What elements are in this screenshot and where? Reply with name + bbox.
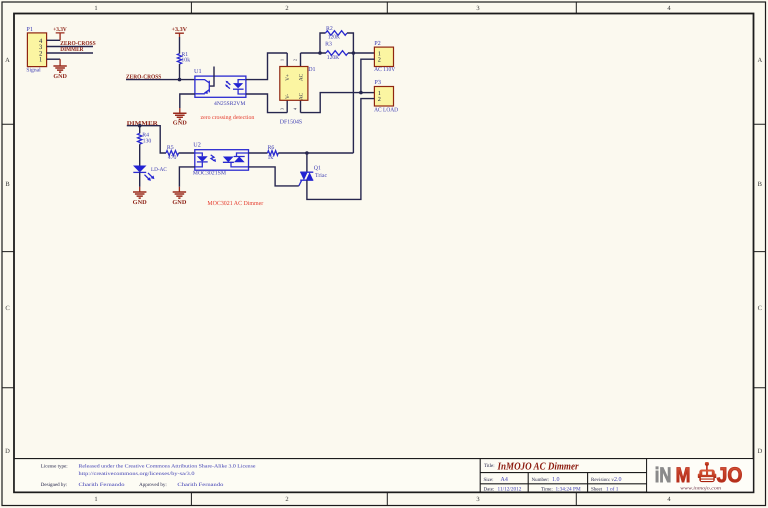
svg-text:A: A [5, 57, 10, 64]
svg-text:A: A [757, 57, 762, 64]
svg-text:GND: GND [173, 120, 188, 126]
wire P2 pin2 down [361, 59, 375, 92]
svg-text:ZERO-CROSS: ZERO-CROSS [60, 41, 96, 47]
svg-text:470: 470 [168, 155, 177, 161]
svg-text:M: M [676, 464, 691, 487]
svg-text:JO: JO [717, 464, 743, 487]
wire D1 pin2 to R2/R3 [301, 52, 321, 54]
svg-text:AC LOAD: AC LOAD [374, 107, 399, 113]
resistor R4 [138, 133, 152, 145]
svg-text:Sheet: Sheet [591, 486, 603, 492]
resistor R2 [326, 26, 347, 40]
svg-text:130: 130 [143, 138, 152, 144]
svg-text:Signal: Signal [26, 67, 41, 73]
wire P1 pin2 DIMMER [47, 52, 93, 54]
svg-text:R5: R5 [167, 145, 174, 151]
svg-text:V+: V+ [285, 74, 291, 81]
svg-text:AC 110V: AC 110V [374, 67, 396, 73]
svg-text:10k: 10k [181, 57, 190, 64]
connector P2 [374, 40, 396, 73]
svg-text:11/12/2012: 11/12/2012 [498, 486, 522, 492]
svg-text:MOC3021SM: MOC3021SM [193, 171, 226, 177]
wire AC hot vertical [352, 53, 354, 153]
svg-text:1k: 1k [268, 154, 274, 161]
title text [484, 461, 579, 472]
svg-text:Number:: Number: [532, 477, 550, 483]
optotriac U2 MOC3021SM [193, 142, 249, 177]
resistor R1 [177, 52, 190, 64]
wire R1 to ZERO-CROSS node [179, 64, 181, 80]
svg-text:1.0: 1.0 [552, 477, 560, 483]
svg-text:2: 2 [293, 59, 298, 61]
power +3.3V (P1) [53, 27, 67, 41]
svg-text:U1: U1 [194, 68, 202, 75]
svg-text:4N25SR2VM: 4N25SR2VM [214, 101, 245, 107]
svg-text:U2: U2 [193, 142, 201, 149]
svg-text:R6: R6 [268, 145, 275, 151]
wire R4 to LED [139, 144, 141, 165]
svg-text:zero crossing detection: zero crossing detection [201, 114, 255, 121]
svg-text:1: 1 [94, 496, 97, 503]
wire R5 to U2 [179, 152, 195, 154]
svg-text:Size:: Size: [484, 477, 494, 483]
svg-text:1: 1 [279, 59, 284, 61]
ground (U1) [173, 108, 188, 126]
license block [14, 459, 754, 493]
wire U2 cathode to GND [179, 167, 194, 187]
svg-text:GND: GND [172, 200, 187, 206]
svg-text:3: 3 [476, 496, 479, 503]
svg-text:1:34:24 PM: 1:34:24 PM [556, 486, 581, 492]
svg-text:Designed by:: Designed by: [41, 482, 68, 488]
svg-text:V-: V- [285, 94, 291, 99]
svg-text:Charith Fernando: Charith Fernando [79, 482, 126, 488]
wire triac MT1 to P3 pin2 [307, 99, 375, 200]
svg-text:Q1: Q1 [314, 165, 321, 171]
resistor R3 [320, 42, 353, 62]
svg-text:2: 2 [378, 96, 381, 103]
svg-text:Title:: Title: [484, 463, 495, 469]
junction P3 pin1 node [359, 91, 363, 95]
bridge rectifier D1 DF1504S [279, 53, 315, 126]
svg-text:D: D [757, 448, 762, 455]
svg-text:Revision: v.: Revision: v. [591, 477, 615, 483]
wire P1 pin3 ZERO-CROSS [47, 46, 93, 48]
wire ZERO-CROSS to U1 [126, 79, 195, 81]
svg-text:GND: GND [53, 74, 67, 80]
svg-text:+3.3V: +3.3V [172, 27, 188, 33]
svg-text:R3: R3 [325, 42, 332, 48]
svg-text:B: B [758, 181, 763, 188]
svg-text:D: D [5, 448, 10, 455]
svg-text:R2: R2 [326, 26, 333, 32]
ground (U2) [172, 187, 187, 206]
svg-text:B: B [5, 181, 10, 188]
connector P3 [374, 79, 399, 113]
svg-text:AC: AC [299, 73, 305, 81]
svg-text:DIMMER: DIMMER [60, 47, 84, 53]
svg-text:1: 1 [94, 5, 97, 12]
svg-text:120K: 120K [327, 55, 340, 61]
title block grid [480, 459, 646, 493]
ground (P1) [53, 59, 67, 80]
wire R6 to AC hot [278, 152, 353, 154]
wire junction to triac [306, 153, 308, 172]
svg-text:DF1504S: DF1504S [280, 120, 302, 126]
svg-text:+3.3V: +3.3V [53, 27, 67, 33]
wire U1 emitter to GND [180, 94, 195, 108]
power +3.3V (R1) [172, 27, 188, 37]
svg-text:1: 1 [39, 57, 42, 64]
wire DIMMER to R4 [139, 126, 141, 134]
wire to P3 pin1 [361, 92, 375, 94]
svg-text:License type:: License type: [41, 464, 68, 470]
wire R2 branch up [320, 33, 353, 53]
wire U1 LED anode to D1 pin1 [246, 53, 287, 80]
junction R4 tap [138, 124, 142, 128]
svg-text:A4: A4 [501, 477, 508, 483]
resistor R6 [249, 145, 279, 161]
size/number/revision row [484, 477, 622, 483]
svg-text:LD-AC: LD-AC [151, 167, 167, 173]
svg-text:2: 2 [285, 5, 288, 12]
junction triac top [305, 151, 309, 155]
svg-text:2: 2 [285, 496, 288, 503]
svg-text:http://creativecommons.org/lic: http://creativecommons.org/licenses/by-s… [79, 471, 196, 477]
svg-text:3: 3 [476, 5, 479, 12]
wire +3.3V to R1 [179, 37, 181, 54]
svg-text:Time:: Time: [541, 486, 553, 492]
svg-text:iN: iN [655, 464, 672, 487]
wire LED to GND [139, 172, 141, 186]
date/time/sheet row [484, 486, 619, 492]
svg-text:Date:: Date: [484, 486, 495, 492]
svg-text:2.0: 2.0 [614, 477, 622, 483]
resistor R5 [166, 145, 179, 161]
svg-text:www.inmojo.com: www.inmojo.com [680, 485, 721, 491]
optocoupler U1 4N25SR2VM [194, 67, 246, 108]
wire P1 pin4 to +3.3V [47, 39, 61, 41]
svg-text:Triac: Triac [315, 173, 327, 179]
svg-text:P1: P1 [26, 26, 33, 33]
junction R2R3 right [352, 51, 356, 55]
wire D1 pin4 to AC node [301, 93, 361, 113]
connector P1 [26, 26, 46, 73]
wire U2 pin4 to gate [249, 167, 299, 186]
svg-text:120K: 120K [328, 35, 341, 41]
svg-text:Charith Fernando: Charith Fernando [177, 482, 224, 488]
LED LD-AC [133, 166, 167, 181]
svg-text:Released under the Creative Co: Released under the Creative Commons Attr… [79, 464, 257, 470]
wire DIMMER rail [127, 126, 166, 153]
inmojo logo [647, 459, 753, 491]
svg-text:AC: AC [299, 92, 305, 100]
svg-text:1 of 1: 1 of 1 [606, 486, 619, 492]
svg-text:C: C [5, 305, 9, 312]
wire U1 LED cathode to D1 pin3 [246, 94, 287, 113]
svg-text:InMOJO AC Dimmer: InMOJO AC Dimmer [497, 461, 580, 472]
wire to P2 pin1 [353, 52, 374, 54]
ground (LED) [133, 187, 148, 206]
svg-text:2: 2 [378, 57, 381, 64]
junction R1/ZERO-CROSS [178, 78, 182, 82]
svg-text:D1: D1 [308, 67, 315, 73]
svg-text:P3: P3 [374, 79, 381, 86]
svg-text:Approved by:: Approved by: [139, 482, 167, 488]
svg-text:P2: P2 [374, 40, 381, 47]
triac Q1 [299, 165, 328, 186]
svg-text:C: C [758, 305, 762, 312]
junction R2R3 left [318, 51, 322, 55]
wire P1 pin1 to GND [47, 58, 61, 60]
svg-text:MOC3021 AC Dimmer: MOC3021 AC Dimmer [207, 200, 263, 207]
svg-text:GND: GND [133, 200, 148, 206]
